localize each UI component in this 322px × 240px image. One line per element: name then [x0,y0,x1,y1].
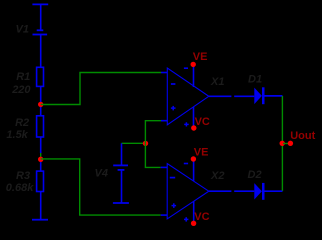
wire X1 output [209,95,232,97]
wire V4 to node A [122,142,146,144]
wire [40,162,42,171]
wire (green joint) [40,153,42,159]
wire X2 output [209,190,232,192]
resistor R2 [37,116,44,137]
svg-text:D1: D1 [248,74,262,86]
resistor R1 [37,67,44,86]
svg-text:Uout: Uout [290,130,315,142]
op-amp X2 [161,160,209,223]
svg-text:R2: R2 [15,117,29,129]
diode D2 [254,183,264,200]
svg-text:VE: VE [194,147,209,159]
svg-text:0.68k: 0.68k [6,182,34,194]
op-amp X1 [161,65,209,127]
svg-text:V4: V4 [95,168,108,180]
power node VE (X2) [191,156,196,161]
wire [40,137,42,153]
resistor R3 [37,171,44,191]
svg-text:R3: R3 [16,170,30,182]
svg-text:1.5k: 1.5k [6,129,28,141]
power node VE (X1) [191,62,196,67]
node on bus [280,141,285,146]
wire [40,35,42,68]
ground [32,219,48,221]
wire node A to X1 + input [145,121,161,144]
svg-text:X1: X1 [210,76,224,88]
wire [40,192,42,220]
battery V1 [33,30,48,34]
svg-text:X2: X2 [210,170,224,182]
wire output bus [281,96,283,191]
svg-text:D2: D2 [248,169,262,181]
wire D1 to out [265,95,283,97]
wire [40,86,42,115]
svg-text:220: 220 [11,84,31,96]
svg-text:R1: R1 [16,71,30,83]
wire [234,190,254,192]
node 1 [38,102,43,107]
svg-text:VE: VE [193,51,208,63]
wire to X2 non-inverting input [41,159,161,215]
power node VC (X2) [191,221,196,226]
node A [143,141,148,146]
node Uout [288,141,293,146]
wire to X1 inverting input [41,73,161,105]
wire stub [283,143,289,145]
power node VC (X1) [191,125,196,130]
wire node A to X2 - input [145,143,160,167]
node 2 [38,157,43,162]
ground [113,202,129,204]
ground terminal bar top [32,3,48,5]
svg-text:VC: VC [194,211,209,223]
svg-text:VC: VC [195,116,210,128]
wire [234,95,254,97]
svg-text:V1: V1 [16,23,29,35]
battery V4 [121,143,123,165]
diode D1 [254,87,264,104]
wire [40,4,42,30]
wire D2 to out [265,190,283,192]
